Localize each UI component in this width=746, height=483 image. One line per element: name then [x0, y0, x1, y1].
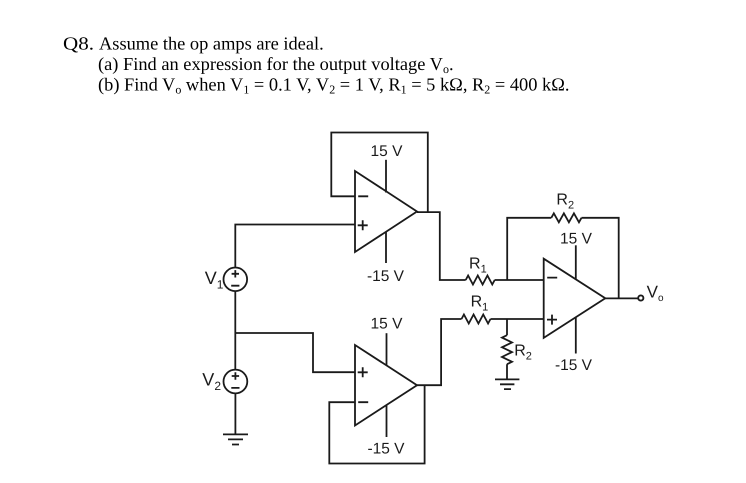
svg-text:Q8.: Q8. [63, 34, 94, 54]
U2 feedback wire [329, 385, 424, 463]
U3 +15V power pin [575, 245, 577, 279]
svg-text:(b) Find Vo when V1 = 0.1 V, V: (b) Find Vo when V1 = 0.1 V, V2 = 1 V, R… [98, 75, 570, 97]
svg-text:V2: V2 [202, 370, 221, 394]
wire: V1 top to U1 plus input [235, 225, 355, 268]
svg-text:Assume the op amps are ideal.: Assume the op amps are ideal. [99, 34, 324, 54]
resistor R1 bottom [462, 315, 491, 324]
resistor R2 feedback [551, 213, 581, 222]
U2 -15V power pin [386, 405, 388, 437]
wire: node A to V2 [234, 333, 236, 370]
U1 -15V power pin [385, 232, 387, 264]
svg-text:(a) Find an expression for the: (a) Find an expression for the output vo… [98, 54, 454, 76]
svg-text:R1: R1 [471, 294, 489, 314]
U3 output wire [605, 297, 638, 299]
svg-text:R2: R2 [556, 192, 574, 212]
wire: V2 to ground [234, 393, 236, 434]
resistor R1 top [466, 276, 495, 285]
svg-text:-15 V: -15 V [367, 441, 405, 458]
op-amp U2 [355, 345, 417, 426]
wire: node A to U2 plus input [235, 333, 355, 372]
wire: R1 bottom to U3 plus input [491, 318, 544, 320]
wire: V1 bottom to node A [234, 291, 236, 333]
svg-text:R2: R2 [514, 343, 532, 363]
svg-text:R1: R1 [469, 256, 487, 276]
U2 output wire [417, 319, 462, 385]
svg-text:-15 V: -15 V [367, 268, 405, 285]
svg-text:15 V: 15 V [560, 230, 593, 247]
resistor R2 to ground [502, 335, 512, 364]
ground G1 [223, 434, 248, 444]
svg-text:-15 V: -15 V [555, 357, 593, 374]
svg-text:V1: V1 [205, 268, 224, 292]
wire: R2 to ground G2 [506, 364, 508, 379]
voltage source V2 [224, 370, 248, 394]
U1 output wire [417, 212, 466, 280]
U3 -15V power pin [575, 317, 577, 353]
svg-text:15 V: 15 V [371, 143, 404, 160]
svg-text:15 V: 15 V [371, 315, 404, 332]
U1 +15V power pin [385, 160, 387, 193]
wire: node B up to R2 feedback [507, 218, 551, 280]
U1 feedback wire [331, 133, 428, 213]
wire: R1 top to U3 minus input [495, 279, 544, 281]
wire: R2 feedback to U3 output [582, 218, 619, 299]
op-amp U3 [544, 259, 606, 338]
wire: node C down to R2 [506, 319, 508, 335]
output terminal circle [638, 295, 643, 300]
svg-text:Vo: Vo [647, 282, 664, 304]
voltage source V1 [224, 268, 248, 292]
op-amp U1 [355, 171, 417, 252]
ground G2 [495, 379, 519, 389]
U2 +15V power pin [386, 333, 388, 365]
